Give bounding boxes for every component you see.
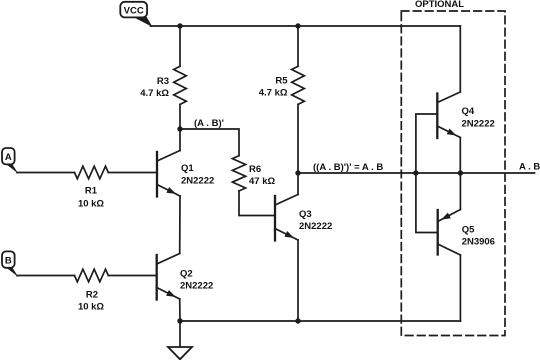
- transistor Q4 (2N2222 NPN): [437, 92, 460, 138]
- wire: R6 bottom lead to Q3 base: [239, 191, 275, 216]
- wire: R3 top lead: [179, 26, 181, 66]
- svg-text:10 kΩ: 10 kΩ: [78, 301, 104, 312]
- junction: ground rail / Q2 emitter: [177, 318, 182, 323]
- wire: Q1 collector to node (A.B)': [179, 129, 181, 151]
- svg-text:R6: R6: [249, 164, 261, 175]
- transistor Q5 (2N3906 PNP): [438, 210, 461, 256]
- svg-text:R2: R2: [86, 289, 98, 300]
- resistor R6: [232, 156, 245, 191]
- svg-text:4.7 kΩ: 4.7 kΩ: [140, 88, 169, 99]
- wire: R5 top lead: [297, 26, 299, 66]
- svg-text:2N3906: 2N3906: [462, 237, 495, 248]
- svg-text:R1: R1: [85, 186, 98, 197]
- dashed box OPTIONAL: [401, 11, 505, 336]
- wire: Q2 emitter to ground rail: [179, 299, 181, 321]
- wire: R2 to Q2 base: [108, 275, 156, 277]
- label Q2 2N2222: [180, 269, 213, 292]
- wire: Q5 emitter from output node: [459, 173, 461, 210]
- transistor Q3 (2N2222 NPN): [275, 195, 298, 241]
- svg-text:(A . B)': (A . B)': [194, 118, 224, 129]
- ground: [168, 321, 192, 359]
- wire: input A to R1: [17, 172, 75, 174]
- wire: Q4 collector from VCC rail: [459, 26, 461, 92]
- svg-text:10 kΩ: 10 kΩ: [78, 198, 104, 209]
- wire: Q4 emitter to output node: [459, 138, 461, 174]
- wire: Q5 base to base-tie node: [416, 173, 438, 233]
- node ((A . B)')' = A . B: [295, 170, 300, 175]
- junction: ground rail / Q3 emitter: [295, 318, 300, 323]
- node (A . B)': [177, 126, 182, 131]
- label R5 value 4.7 kOhm: [259, 76, 288, 99]
- junction: Q4/Q5 base tie: [413, 170, 418, 175]
- svg-text:4.7 kΩ: 4.7 kΩ: [259, 88, 288, 99]
- label Q4 2N2222: [462, 106, 495, 129]
- transistor Q1 (2N2222 NPN): [157, 151, 180, 197]
- label Q5 2N3906: [462, 225, 495, 248]
- svg-text:2N2222: 2N2222: [462, 118, 495, 129]
- wire: node (A.B)' to R6: [180, 129, 239, 156]
- svg-text:((A . B)')' = A . B: ((A . B)')' = A . B: [313, 162, 383, 173]
- svg-text:47 kΩ: 47 kΩ: [249, 176, 275, 187]
- wire: Q3 emitter to ground rail: [297, 240, 299, 321]
- input label B: [2, 251, 18, 277]
- svg-text:Q4: Q4: [462, 106, 475, 117]
- junction: top rail / R3: [177, 23, 182, 28]
- resistor R1: [75, 166, 109, 179]
- label Q3 2N2222: [299, 209, 332, 232]
- wire: Q5 collector to ground rail: [459, 255, 461, 321]
- wire: VCC top rail: [151, 25, 461, 27]
- wire: R5 bottom lead to output node of Q3: [297, 104, 299, 173]
- wire: Q4 base to base-tie node: [416, 114, 437, 173]
- wire: Q3 collector to output node: [297, 173, 299, 195]
- resistor R2: [75, 269, 109, 282]
- label R2 value 10 kOhm: [78, 289, 104, 312]
- svg-text:2N2222: 2N2222: [180, 281, 213, 292]
- svg-text:Q1: Q1: [181, 163, 194, 174]
- junction: Q4 emitter / Q5 emitter output: [458, 170, 463, 175]
- svg-text:A . B: A . B: [519, 161, 540, 172]
- transistor Q2 (2N2222 NPN): [157, 254, 180, 300]
- svg-text:A: A: [5, 152, 12, 163]
- junction: top rail / R5: [295, 23, 300, 28]
- svg-text:Q3: Q3: [299, 209, 312, 220]
- wire: R3 bottom lead to node (A.B)': [179, 104, 181, 129]
- svg-text:OPTIONAL: OPTIONAL: [415, 0, 464, 10]
- svg-text:Q5: Q5: [462, 225, 475, 236]
- label Q1 2N2222: [181, 163, 214, 186]
- wire: ground rail: [180, 320, 460, 322]
- VCC label: [120, 2, 152, 27]
- svg-text:VCC: VCC: [124, 5, 144, 16]
- svg-text:2N2222: 2N2222: [181, 175, 214, 186]
- input label A: [2, 148, 18, 174]
- resistor R3: [174, 66, 187, 104]
- svg-text:2N2222: 2N2222: [299, 221, 332, 232]
- wire: input B to R2: [17, 275, 75, 277]
- svg-text:B: B: [5, 256, 12, 267]
- svg-text:R3: R3: [157, 76, 169, 87]
- svg-text:R5: R5: [275, 76, 288, 87]
- svg-text:Q2: Q2: [180, 269, 193, 280]
- resistor R5: [292, 66, 305, 104]
- label R1 value 10 kOhm: [78, 186, 104, 210]
- wire: output node line to A.B output: [298, 172, 535, 174]
- wire: R1 to Q1 base: [108, 172, 157, 174]
- label R3 value 4.7 kOhm: [140, 76, 169, 99]
- label R6 value 47 kOhm: [249, 164, 275, 187]
- wire: Q1 emitter to Q2 collector: [179, 196, 181, 254]
